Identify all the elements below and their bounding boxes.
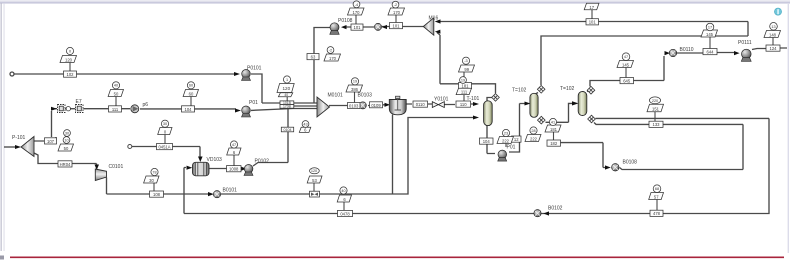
svg-text:17: 17: [708, 26, 712, 30]
svg-text:Y0101: Y0101: [434, 96, 449, 102]
circle -2 M10: [392, 1, 399, 8]
mixer M10: [423, 18, 434, 35]
box 12 riser: [512, 136, 522, 142]
wire T-103 top connector: [582, 91, 584, 93]
svg-text:P0101: P0101: [247, 66, 262, 72]
box 0451A: [157, 144, 173, 150]
arrow into M10 top: [435, 19, 441, 23]
wire P0104 up to T-102 feed: [509, 104, 524, 153]
svg-text:43: 43: [303, 122, 307, 126]
box 101 topline: [586, 19, 599, 25]
wire 182 line to B0108: [549, 143, 605, 168]
wire T-102 top connector: [536, 93, 539, 95]
connector 0-120 to box102: [69, 63, 71, 72]
arrow into VD103 left: [187, 166, 193, 170]
column T-102: [530, 93, 538, 117]
circle 47 P0102: [230, 141, 237, 148]
arrow into B0110: [665, 51, 671, 55]
para texts: [64, 5, 777, 202]
para 40 mixer2: [278, 93, 292, 97]
svg-text:P01: P01: [507, 145, 516, 151]
connector 78-30 to box108: [153, 183, 155, 191]
svg-text:110: 110: [460, 102, 467, 107]
heat exchanger E7 block2: [76, 105, 84, 113]
svg-text:-3: -3: [464, 59, 467, 63]
svg-text:-4: -4: [355, 3, 358, 7]
svg-text:50: 50: [114, 92, 119, 97]
valve B0101: [213, 191, 220, 198]
para 60: [183, 90, 198, 97]
svg-text:P-101: P-101: [12, 135, 26, 141]
svg-text:104: 104: [483, 139, 491, 144]
svg-text:23: 23: [504, 131, 508, 135]
svg-text:19: 19: [353, 80, 357, 84]
arrow into B0108: [605, 165, 611, 169]
column T-103: [578, 92, 587, 116]
circle 10 P101: [63, 137, 70, 144]
svg-text:0451A: 0451A: [158, 145, 170, 150]
svg-text:0103: 0103: [349, 104, 359, 109]
svg-text:386: 386: [351, 87, 359, 92]
wire top long line into M10: [437, 21, 748, 23]
svg-text:170: 170: [329, 56, 337, 61]
svg-text:124: 124: [770, 46, 778, 51]
box 644: [703, 49, 717, 55]
wire M0101 outlet to reactor: [329, 104, 385, 107]
mixer M0101: [317, 97, 330, 117]
svg-text:220: 220: [652, 99, 658, 103]
pump P0103: [242, 106, 251, 117]
wire reactor bottom downcomer: [392, 115, 394, 195]
para 170 63: [324, 54, 341, 61]
circle 120 bottom: [310, 168, 320, 174]
compressor C0101: [95, 169, 106, 181]
arrow into P0111: [734, 51, 740, 55]
circle 17 644: [706, 23, 714, 31]
svg-text:VD103: VD103: [207, 157, 223, 163]
circle 30 P101: [64, 130, 71, 137]
svg-text:P01: P01: [249, 100, 258, 106]
connector 1-120 stack to box101B: [286, 97, 288, 101]
wire T-102 condenser loop: [541, 22, 748, 86]
box 107: [45, 138, 57, 144]
circle 220: [649, 97, 660, 104]
para 222 T102: [525, 135, 541, 142]
wire E7 train line to p6 pump: [55, 108, 130, 110]
pump P0108: [330, 23, 339, 35]
svg-text:40: 40: [341, 189, 345, 193]
arrow into T-103 feed: [572, 101, 579, 105]
valve B0103 on reactor feed: [359, 102, 366, 109]
svg-text:60: 60: [189, 92, 194, 97]
svg-text:T=102: T=102: [560, 86, 575, 92]
svg-text:120: 120: [282, 86, 290, 91]
box 1008: [227, 166, 242, 172]
para 151 133: [647, 104, 664, 111]
circle 78: [151, 168, 158, 175]
svg-text:40: 40: [114, 84, 118, 88]
svg-text:181: 181: [462, 84, 470, 89]
svg-text:0109: 0109: [371, 103, 381, 108]
box 101B: [280, 101, 294, 105]
svg-text:102: 102: [67, 72, 75, 77]
box 181cond: [459, 83, 472, 89]
circle -2 63: [327, 47, 334, 54]
svg-text:0104: 0104: [284, 128, 292, 132]
para 170 P0108: [348, 8, 365, 15]
svg-text:60: 60: [189, 84, 193, 88]
box 0103: [348, 103, 361, 109]
svg-text:T=102: T=102: [512, 88, 527, 94]
svg-text:78: 78: [152, 170, 156, 174]
arrow into M10 bottom: [435, 30, 441, 34]
svg-text:B0101: B0101: [223, 188, 238, 194]
box 101A m10out: [390, 23, 403, 29]
svg-text:645: 645: [623, 79, 631, 84]
connector 41-181 to box182: [553, 132, 555, 140]
svg-text:B0103: B0103: [358, 93, 373, 99]
valve B0102: [534, 210, 541, 217]
para 386: [346, 85, 363, 92]
wire P0101 riser to mixer: [251, 74, 317, 103]
box 111: [109, 106, 122, 112]
svg-text:P0111: P0111: [738, 40, 752, 46]
reboiler diamond T-102: [538, 116, 546, 124]
svg-text:B0108: B0108: [623, 160, 638, 166]
para 145 644: [701, 30, 718, 37]
circle 68: [653, 185, 661, 193]
wire reboiler line 133: [594, 123, 743, 125]
arrow into VD103 top: [198, 157, 203, 163]
heat exchanger E7 circle: [66, 107, 70, 111]
svg-text:68: 68: [655, 187, 659, 191]
node energy circle: [128, 145, 132, 149]
valve B0110: [669, 49, 676, 56]
box 102: [64, 71, 77, 77]
arrow into P0108: [341, 25, 347, 29]
valve B0107 on M10 line: [375, 23, 382, 30]
svg-text:111: 111: [112, 107, 119, 112]
circle 1: [283, 76, 290, 83]
circle 23: [502, 129, 509, 136]
svg-text:30: 30: [163, 122, 167, 126]
svg-text:1008: 1008: [229, 167, 239, 172]
connector 13-148 to box124: [772, 38, 774, 46]
svg-text:107: 107: [47, 139, 55, 144]
wire T-101 bottoms to pump P0104: [487, 126, 495, 154]
svg-text:50: 50: [64, 146, 69, 151]
para 145 645: [617, 61, 634, 68]
circle 30b: [161, 120, 168, 127]
svg-text:148: 148: [769, 33, 777, 38]
wire VD103 outlet to P0102: [209, 168, 242, 170]
svg-text:40: 40: [284, 93, 288, 97]
svg-text:E7: E7: [76, 99, 82, 105]
wire reactor outlet to T-101: [406, 103, 473, 106]
para 17 topline: [584, 3, 599, 10]
svg-text:644: 644: [707, 50, 715, 55]
circle -3: [462, 57, 469, 64]
box 0109: [370, 102, 383, 108]
svg-text:p6: p6: [143, 102, 149, 108]
box 0110: [413, 101, 428, 107]
condenser diamond T-101: [492, 94, 500, 102]
wire B0110 to P0111: [677, 52, 734, 55]
svg-text:170: 170: [393, 10, 401, 15]
arrow into E7 train: [51, 107, 57, 111]
box 124: [766, 45, 780, 51]
info icon top right: [774, 8, 781, 15]
para 57 bottom: [649, 193, 664, 200]
frame left border: [1, 3, 2, 251]
box 101 mid: [351, 24, 363, 30]
para 99: [459, 65, 475, 72]
box 110: [456, 101, 471, 107]
svg-text:108: 108: [153, 192, 161, 197]
svg-text:181: 181: [550, 127, 558, 132]
svg-text:120: 120: [65, 58, 73, 63]
svg-text:P0108: P0108: [338, 18, 353, 24]
para 50 E7: [108, 90, 123, 97]
svg-text:47: 47: [232, 143, 236, 147]
reboiler diamond T-103: [588, 115, 596, 123]
svg-text:101: 101: [354, 25, 362, 30]
svg-text:-2: -2: [394, 3, 397, 7]
arrow into T-102 feed: [525, 102, 531, 106]
circle 13 124: [770, 23, 778, 31]
node feed circle: [10, 72, 14, 76]
svg-text:101: 101: [393, 24, 401, 29]
wire p6 to P0103: [140, 108, 236, 110]
connector 40-6 to box0478: [343, 202, 345, 211]
svg-text:170B: 170B: [283, 105, 292, 109]
para 222 P0104: [497, 137, 514, 144]
svg-text:1: 1: [286, 78, 288, 82]
svg-text:P0102: P0102: [255, 159, 270, 165]
box tag-valve on 194 line: [310, 191, 320, 197]
svg-text:145: 145: [622, 63, 630, 68]
circle texts: [64, 3, 775, 193]
circle 47 645: [622, 53, 630, 61]
svg-text:41: 41: [551, 120, 555, 124]
arrow into P0102: [241, 167, 247, 171]
connector 40-50 to box111: [115, 97, 117, 107]
box 104a: [182, 106, 195, 112]
connector -3 stack to box110: [463, 72, 465, 101]
pump P0111: [741, 49, 751, 61]
svg-text:47: 47: [624, 55, 628, 59]
para 120 feed: [60, 56, 77, 63]
circle 41: [549, 118, 556, 125]
tag box texts: [47, 20, 777, 217]
svg-text:T-101: T-101: [467, 96, 480, 102]
para 6 0478: [337, 195, 351, 202]
box 104b: [480, 138, 494, 144]
wire P0108 discharge riser: [314, 28, 330, 104]
condenser diamond T-103: [587, 86, 595, 94]
wire P-101 outlet up to E7 train: [34, 111, 56, 141]
box 182: [547, 140, 561, 146]
arrows: [15, 19, 740, 215]
box 108: [150, 191, 164, 197]
svg-text:222: 222: [502, 139, 510, 144]
connector 220-151 to box133: [654, 112, 656, 121]
connector 120-53 to tagvalve: [313, 183, 315, 191]
circle 40 0478: [340, 187, 347, 194]
wire P0102 up to mixer M0101: [253, 106, 317, 166]
circle 19 386: [351, 78, 358, 85]
box 133: [649, 121, 663, 127]
circle 43: [302, 121, 309, 128]
circle -4: [353, 1, 360, 8]
heat exchanger E7 block1: [58, 105, 66, 113]
svg-text:17: 17: [589, 5, 594, 10]
wire feed into P-101: [4, 146, 15, 148]
wire C0101 outlet down to line194: [106, 178, 108, 195]
condenser diamond T-102: [537, 86, 545, 94]
wire P-101 bottom to HR04 and C0101: [34, 153, 97, 167]
svg-text:13: 13: [771, 25, 775, 29]
frame right border: [788, 3, 789, 253]
svg-text:B0102: B0102: [548, 206, 563, 212]
svg-text:101: 101: [589, 20, 597, 25]
para 50 P101: [58, 144, 74, 151]
box 0104: [281, 127, 293, 132]
svg-text:182: 182: [550, 141, 558, 146]
wire P0111 outlet to edge: [752, 48, 787, 50]
svg-text:478: 478: [653, 211, 661, 216]
drum VD103: [193, 162, 210, 176]
svg-text:10: 10: [64, 138, 68, 142]
connector 68-57 to box478b: [656, 200, 658, 211]
svg-text:B0110: B0110: [680, 47, 694, 53]
arrow into B0102 from right: [543, 211, 549, 215]
para 30 C0101: [144, 176, 159, 183]
expander P-101: [21, 137, 34, 157]
connector 47-145 to box645: [625, 68, 627, 78]
para 6 P0102: [227, 148, 241, 155]
arrow into T-101 feed1: [473, 102, 479, 106]
para 170 M10: [388, 8, 405, 15]
wire T-102 bottoms to T-103 feed: [546, 103, 573, 122]
arrow into P0103: [235, 109, 241, 113]
arrow into C0101: [95, 165, 100, 171]
svg-text:104: 104: [185, 107, 193, 112]
box 645: [620, 78, 634, 84]
connector -4-170 to box101: [355, 15, 357, 24]
box 170B: [280, 105, 294, 109]
svg-text:0: 0: [69, 49, 71, 53]
connector 17-145 to box644: [709, 37, 711, 49]
svg-text:C0101: C0101: [109, 164, 124, 170]
svg-text:M0101: M0101: [328, 93, 344, 99]
wire P0103 to mixer: [251, 109, 317, 111]
svg-text:0110: 0110: [416, 102, 426, 107]
arrow into P0101: [234, 72, 240, 76]
box 478b: [650, 210, 663, 216]
circle 40 E7: [112, 82, 119, 89]
wire T-103 bottoms long recycle: [184, 118, 769, 213]
svg-text:222: 222: [530, 137, 538, 142]
frame top border: [0, 0, 790, 2]
svg-text:145: 145: [706, 32, 714, 37]
circle 19 110: [460, 77, 467, 84]
svg-text:0478: 0478: [340, 211, 350, 216]
wire T-103 condenser to B0110: [587, 56, 664, 92]
reactor R0101: [389, 96, 406, 115]
para 0: [158, 128, 172, 135]
para 181: [545, 125, 561, 132]
wire feed 102 top-left long line: [14, 73, 234, 75]
box HR04: [58, 161, 72, 167]
pump P0102: [244, 165, 253, 176]
para 148: [764, 31, 781, 38]
connector -2-170 to boxM10out: [395, 15, 397, 23]
arrow into T-101 feed2: [473, 116, 479, 120]
svg-text:28: 28: [531, 129, 535, 133]
svg-text:-2: -2: [329, 48, 332, 52]
valve B0108: [612, 164, 619, 171]
arrow into B0107 valve: [382, 25, 387, 29]
circle 28: [530, 127, 537, 134]
valve Y0101 bowtie: [432, 102, 444, 108]
svg-text:133: 133: [653, 122, 661, 127]
arrow into P-101: [15, 145, 21, 149]
svg-text:151: 151: [652, 107, 660, 112]
arrow into reactor: [385, 103, 391, 107]
connector 47-6 to box1008: [233, 155, 235, 166]
wire 0451A energy line to VD103: [132, 147, 200, 158]
svg-text:57: 57: [654, 195, 659, 200]
para 120 mixer: [277, 84, 294, 93]
box 63: [307, 54, 319, 60]
pump P0104: [498, 150, 507, 161]
connector 19-386 to box0103: [354, 92, 356, 103]
svg-text:53: 53: [312, 178, 317, 183]
svg-text:12: 12: [514, 137, 519, 142]
wire T-101 condenser recycle to M10: [437, 33, 496, 102]
para 111: [456, 88, 471, 94]
svg-text:111: 111: [461, 90, 468, 95]
connector 17 para to box101 topline: [591, 10, 593, 19]
svg-text:M16: M16: [429, 15, 439, 21]
pump P0101: [242, 70, 251, 81]
wire recycle riser into VD103: [184, 168, 186, 214]
svg-text:120: 120: [311, 169, 317, 173]
wire line y194 C0101 to B0101 to column T-101: [107, 118, 474, 195]
wire M10 outlet through B valve to P0108: [346, 26, 424, 29]
red bottom line: [10, 256, 784, 258]
svg-text:63: 63: [311, 55, 316, 60]
para 53: [307, 176, 322, 183]
arrow into B0101: [208, 192, 214, 196]
circle 0: [66, 47, 73, 54]
para 6 0104: [299, 127, 311, 132]
svg-text:HR04: HR04: [60, 162, 71, 167]
svg-text:30: 30: [65, 131, 69, 135]
svg-text:30: 30: [149, 178, 154, 183]
connector 23-222 stub: [505, 144, 507, 148]
box 0478: [338, 210, 353, 216]
column T-101: [484, 101, 493, 126]
wire B0108 outlet loop: [620, 124, 744, 169]
svg-text:170: 170: [353, 10, 361, 15]
circle 60: [187, 82, 194, 89]
connector 60-60 to box104: [190, 97, 192, 107]
wire T-102 feed arrow stub: [524, 103, 526, 105]
connector 30-0 to box0451A: [164, 135, 166, 144]
svg-text:19: 19: [461, 78, 465, 82]
